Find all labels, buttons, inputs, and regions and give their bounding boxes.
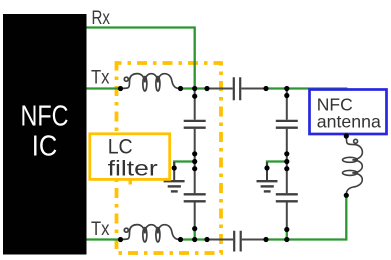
junction L2 input (bottom Tx line)	[118, 237, 123, 242]
junction node A right (top Tx line)	[204, 86, 209, 91]
svg-text:NFC: NFC	[21, 101, 69, 133]
svg-text:Rx: Rx	[92, 7, 111, 29]
inductor L1 (top Tx line)	[121, 74, 181, 91]
wire top to antenna (green)	[266, 89, 346, 135]
junction node C right (bottom Tx line)	[204, 237, 209, 242]
junction GND2 stub	[264, 165, 269, 170]
capacitor C3 (left chain lower)	[184, 194, 206, 201]
svg-text:Tx: Tx	[91, 218, 110, 240]
inductor L2 (bottom Tx line)	[121, 225, 181, 242]
junction L1 input (top Tx line)	[118, 86, 123, 91]
junction C1 output (top line)	[263, 86, 268, 91]
inductor L3 (NFC antenna coil)	[343, 136, 363, 196]
NFC IC block U1	[3, 14, 87, 255]
wire ground branch left (green)	[174, 162, 195, 167]
ground GND2 (right)	[257, 162, 278, 191]
junction right chain below ground tap	[284, 166, 289, 171]
junction C6 output (bottom line)	[263, 237, 268, 242]
wire stub bottom left chain (green)	[194, 229, 196, 240]
LC filter label box	[90, 134, 170, 180]
junction right chain ground tap	[284, 159, 289, 164]
LC filter boundary (dash-dot gold rectangle)	[117, 63, 222, 253]
wire bottom junction segment (green)	[181, 238, 208, 240]
junction right chain top terminal	[284, 93, 289, 98]
capacitor C5 (right chain lower)	[276, 194, 298, 201]
junction left chain above ground tap	[192, 151, 197, 156]
node dot antenna coil bottom	[344, 193, 349, 198]
wire Rx (green, from NFC IC to junction drop)	[87, 28, 195, 89]
wire Tx bottom left (green)	[87, 238, 121, 240]
wire left shunt chain vertical	[194, 89, 196, 229]
capacitor C2 (left chain upper)	[184, 121, 206, 128]
junction left chain below ground tap	[192, 166, 197, 171]
wire ground branch right (green)	[267, 162, 287, 167]
junction GND1 stub	[172, 165, 177, 170]
junction node C (left chain on bottom Tx line)	[192, 237, 197, 242]
wire Tx top left (green)	[87, 87, 121, 89]
NFC antenna label box	[310, 90, 387, 135]
junction node D (right chain on bottom line)	[284, 237, 289, 242]
junction node A (Rx tap on top Tx line)	[192, 86, 197, 91]
capacitor C1 (series, top line)	[234, 77, 240, 100]
junction left chain ground tap	[192, 159, 197, 164]
svg-text:LC: LC	[108, 136, 133, 159]
svg-text:filter: filter	[108, 158, 158, 181]
svg-text:IC: IC	[32, 131, 58, 163]
svg-text:antenna: antenna	[317, 112, 381, 132]
node dot on antenna box border	[344, 133, 349, 138]
junction L1 output (top Tx line)	[178, 86, 183, 91]
svg-text:Tx: Tx	[91, 67, 110, 89]
wire bottom line gray segments	[207, 239, 266, 241]
wire stub bottom right chain (green)	[286, 230, 288, 240]
wire right shunt chain vertical	[286, 89, 288, 230]
capacitor C4 (right chain upper)	[276, 121, 298, 128]
junction right chain above ground tap	[284, 151, 289, 156]
capacitor C6 (series, bottom line)	[234, 231, 241, 252]
wire top line gray segments	[207, 88, 266, 90]
LC filter label callout tail	[129, 179, 133, 185]
wire top junction segment (green)	[181, 87, 208, 89]
junction left chain bottom terminal	[192, 226, 197, 231]
ground GND1 (left)	[164, 162, 185, 191]
wire bottom to antenna (green)	[266, 195, 346, 239]
junction right chain bottom terminal	[284, 227, 289, 232]
junction L2 output (bottom Tx line)	[178, 237, 183, 242]
junction left chain top terminal	[192, 94, 197, 99]
junction node B (right chain tap, top line)	[284, 86, 289, 91]
